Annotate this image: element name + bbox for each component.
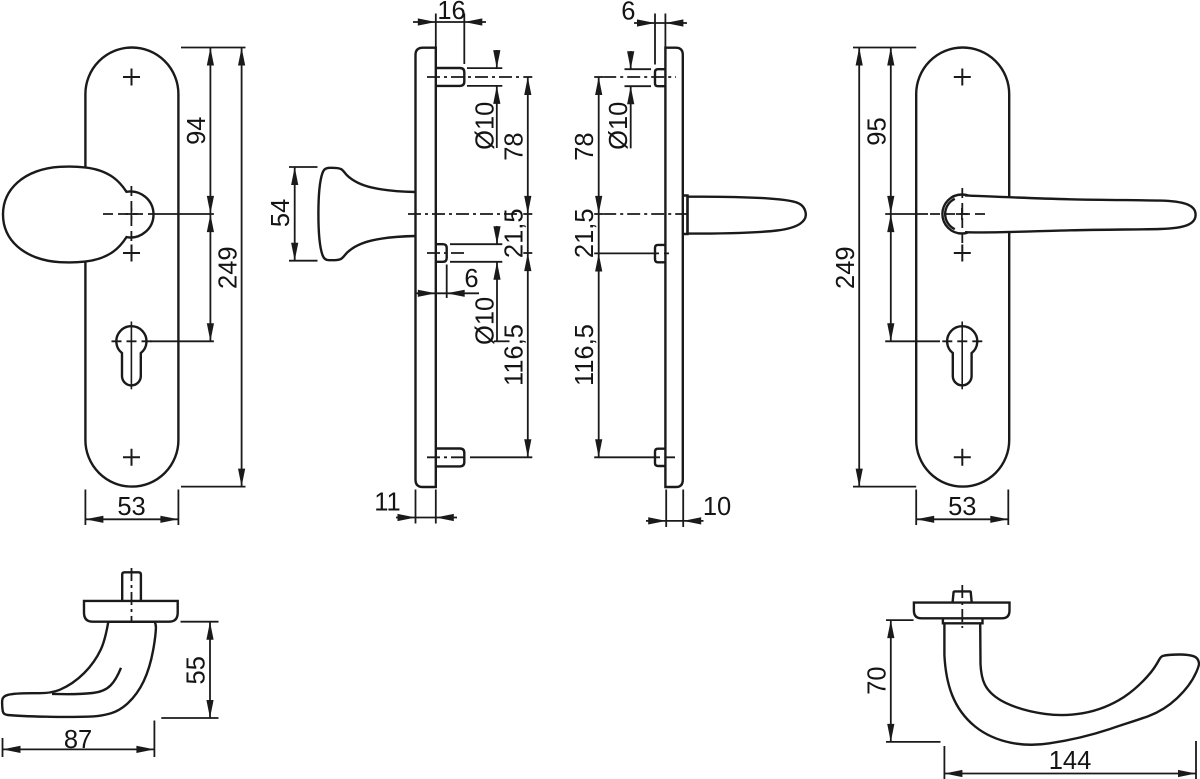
dimension line 87 fig5 [3,748,155,750]
dimension line 94 fig1 [209,48,211,342]
screw boss top fig2 [436,68,465,86]
arrow 55 bottom [206,700,213,718]
dimension line 95 fig4 [890,48,892,342]
knob rose flange fig5 [84,601,178,622]
extension dia10 upper fig3 [625,68,652,70]
screw boss bottom fig2 [436,449,465,467]
centreline top boss fig2 [427,76,519,78]
svg-text:55: 55 [183,656,211,684]
keyhole horizontal centreline fig4 [942,340,983,342]
extension 16 left fig2 [435,14,437,48]
screw cross top fig4 [954,69,971,86]
svg-text:6: 6 [464,265,478,293]
arrow 249 top fig4 [856,48,863,66]
lever bar fill mask fig4 [963,195,1196,232]
dimension chain line fig3 [598,77,600,457]
euro cylinder keyhole fig1 [116,326,146,385]
extension dia10 top upper fig2 [467,67,502,69]
arrow 78 bottom fig3 [595,196,602,214]
knob centreline vertical fig1 [130,186,132,247]
screw boss bottom fig3 [655,449,665,466]
arrow 53 right fig1 [160,516,178,523]
screw boss middle fig3 [655,245,665,262]
dia10 tail upper fig3 [630,51,632,69]
extension 53 right fig1 [177,490,179,526]
dimension line 249 fig4 [858,48,860,487]
tick 78 top fig2 [523,76,532,78]
svg-text:249: 249 [832,246,860,289]
arrow 116,5 bottom fig3 [595,439,602,457]
arrow 72 bottom [207,323,214,341]
centreline top boss fig3 [603,76,676,78]
lever collar fig6 [943,618,983,623]
arrow 11 left [398,514,416,521]
extension 53 left fig1 [84,490,86,526]
arrow dia10 mid lower [493,262,500,280]
dia10 mid tail upper fig2 [496,226,498,244]
spindle fig6 [953,591,972,602]
arrow 55 top [206,622,213,640]
arrow 116,5 top fig3 [595,254,602,272]
centreline bottom boss fig2 [427,456,466,458]
arrow 70 bottom [887,724,894,742]
centreline middle boss fig3 [649,252,669,254]
keyhole horizontal centreline fig1 [112,340,153,342]
arrow 6 left fig3 [637,19,655,26]
svg-text:21,5: 21,5 [500,208,528,258]
rose inner arc fig4 [945,199,955,229]
extension dia10 lower fig3 [625,85,652,87]
dimension line 11 fig2 [396,517,457,519]
knob crease line fig5 [52,668,121,694]
arrow 94 top [207,48,214,66]
lever rose flange fig6 [914,603,1010,619]
dimension line 55 fig5 [209,622,211,718]
dimension line 53 fig4 [916,518,1008,520]
extension 10 left fig3 [665,490,667,528]
extension 70 top fig6 [886,619,914,621]
extension dia10 mid upper fig2 [450,243,502,245]
dimension line 6 fig2 [415,292,479,294]
arrow dia10 top upper [493,50,500,68]
arrow 54 bottom [291,243,298,261]
screw cross top fig1 [123,69,140,86]
arrow 72 bottom fig4 [887,323,894,341]
extension bottom fig4 [853,486,916,488]
knob front view fig1 [3,167,153,263]
spindle centreline fig5 [131,568,133,630]
arrow 54 top [291,167,298,185]
arrow dia10 top lower [493,86,500,104]
spindle fig5 [122,572,141,601]
lever rose circle fig4 [942,195,981,234]
svg-text:78: 78 [500,132,528,160]
plate side profile fig2 [416,48,436,487]
arrow 6 right fig3 [665,19,683,26]
arrow 16 right [464,18,482,25]
screw cross middle fig1 [123,245,140,262]
keyhole vertical centreline fig1 [130,322,132,390]
arrow 78 top fig2 [524,77,531,95]
svg-text:10: 10 [703,493,731,521]
dimension line 70 fig6 [890,620,892,742]
svg-text:78: 78 [571,132,599,160]
euro cylinder keyhole fig4 [947,326,977,385]
lever neck and arm fig6 [944,623,1199,744]
dimension line 6 fig3 [634,22,687,24]
knob side profile fig2 [318,168,415,260]
arrow 144 left [944,770,962,777]
arrow 6 right fig2 [447,290,465,297]
arrow dia10 lower fig3 [627,86,634,104]
svg-text:6: 6 [621,0,635,26]
extension bottom fig1 [181,486,246,488]
arrow 94 bottom [207,196,214,214]
extension 11 left fig2 [415,490,417,524]
dia10 top arrow tail lower fig2 [496,86,498,148]
extension 144 left fig6 [943,746,945,779]
extension 87 left fig5 [2,738,4,757]
arrow 16 left [418,18,436,25]
arrow 116,5 top fig2 [524,253,531,271]
arrow 6 left fig2 [418,290,436,297]
extension 6 left fig3 [654,14,656,65]
centreline handle fig2 [408,213,519,215]
screw cross bottom fig4 [954,449,971,466]
dimension line 53 fig1 [85,518,178,520]
svg-text:87: 87 [64,726,92,754]
tick handle fig2 [523,213,532,215]
extension 54 bottom fig2 [289,260,318,262]
knob centre cross fig1 [125,208,137,220]
arrow 70 top [887,620,894,638]
arrow 72 top [207,214,214,232]
dimension chain line fig2 [527,77,529,457]
arrow 144 right [1178,770,1196,777]
knob body swoosh fig5 [2,622,156,717]
lever bar outline fig4 [965,195,1196,232]
arrow 249 top fig1 [238,48,245,66]
dia10 mid tail lower fig2 [496,262,498,342]
extension bottom boss fig3 [594,456,650,458]
arrow 87 left [3,746,21,753]
arrow 95 bottom [887,196,894,214]
extension 53 left fig4 [915,490,917,526]
extension 55 bottom fig5 [161,717,218,719]
spindle vertical centreline fig6 [961,585,963,628]
handle centreline horizontal fig4 [930,213,986,215]
extension 54 top fig2 [289,166,318,168]
arrow 72 top fig4 [887,214,894,232]
arrow 10 right [683,517,701,524]
handle centre cross fig4 [956,208,968,220]
keyhole vertical centreline fig4 [961,322,963,390]
svg-text:116,5: 116,5 [500,324,528,386]
svg-text:21,5: 21,5 [571,208,599,258]
svg-text:249: 249 [215,246,243,289]
svg-text:Ø10: Ø10 [472,297,500,345]
dimension line 249 fig1 [241,48,243,487]
svg-text:53: 53 [948,493,976,521]
tick middle fig2 [523,252,532,254]
centreline bottom boss fig3 [650,456,675,458]
centreline middle boss fig2 [427,252,466,254]
svg-text:144: 144 [1049,747,1092,775]
arrow 10 left [648,517,666,524]
arrow 249 bottom fig1 [238,469,245,487]
dia10 mid tail bar fig2 [494,340,510,342]
dimension line 10 fig3 [646,520,704,522]
dimension line 144 fig6 [944,773,1196,775]
screw boss middle fig2 [436,244,447,262]
arrow 53 left fig1 [85,516,103,523]
arrow 249 bottom fig4 [856,469,863,487]
extension 16 right fig2 [463,14,465,65]
plate (stadium outline) fig1 [85,48,178,487]
extension 55 top fig5 [181,621,219,623]
arrow 87 right [136,746,154,753]
screw cross middle fig4 [954,245,971,262]
tick handle fig3 [594,213,603,215]
svg-text:16: 16 [437,0,465,25]
arrow 11 right [436,514,454,521]
extension 70 bottom fig6 [886,741,941,743]
extension 6 fig2 [446,265,448,299]
knob centreline horizontal fig1 [103,213,153,215]
extension handle centre fig4 [885,213,928,215]
svg-text:Ø10: Ø10 [471,102,499,150]
extension keyhole fig1 [150,340,214,342]
svg-text:95: 95 [863,117,891,145]
extension 53 right fig4 [1007,490,1009,526]
extension 6 right fig3 [664,14,666,48]
arrow 116,5 bottom fig2 [524,439,531,457]
extension 11 right fig2 [435,490,437,524]
dimension line 16 fig2 [413,21,486,23]
svg-text:70: 70 [863,666,891,694]
extension top fig1 [181,47,246,49]
extension keyhole fig4 [885,340,940,342]
lever collar fig3 [683,196,688,235]
extension dia10 mid lower fig2 [450,261,502,263]
plate side profile fig3 [665,48,682,487]
extension middle boss fig3 [594,252,649,254]
svg-text:53: 53 [117,493,145,521]
arrow dia10 upper fig3 [627,51,634,69]
screw cross bottom fig1 [123,449,140,466]
svg-text:54: 54 [267,199,295,227]
extension 87 right fig5 [153,721,155,758]
screw boss top fig3 [655,69,665,86]
extension top fig4 [853,47,916,49]
extension 10 right fig3 [682,490,684,528]
dimension line 54 fig2 [294,167,296,261]
extension dia10 top lower fig2 [467,85,502,87]
svg-text:116,5: 116,5 [571,324,599,386]
extension 144 right fig6 [1195,741,1197,779]
arrow 95 top [887,48,894,66]
svg-text:Ø10: Ø10 [605,102,633,150]
arrow 78 top fig3 [595,77,602,95]
svg-text:94: 94 [183,117,211,145]
svg-text:11: 11 [374,489,400,517]
arrow 53 right fig4 [990,516,1008,523]
extension bottom boss fig2 [470,456,532,458]
dia10 top arrow tail upper fig2 [496,50,498,68]
dia10 tail lower fig3 [630,86,632,148]
handle centreline vertical fig4 [961,188,963,247]
centreline handle fig3 [603,213,692,215]
arrow 53 left fig4 [916,516,934,523]
lever handle side profile fig3 [688,197,806,234]
arrow 78 bottom fig2 [524,196,531,214]
extension knob centre fig1 [154,213,214,215]
tick 78 top fig3 [594,76,603,78]
plate (stadium outline) fig4 [916,48,1009,487]
arrow dia10 mid upper [493,226,500,244]
